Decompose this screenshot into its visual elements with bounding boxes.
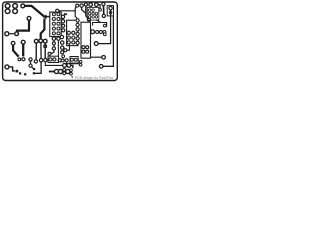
wire W27 bbox=[59, 11, 77, 19]
pad J3.6 bbox=[88, 16, 91, 19]
pad P29 bbox=[99, 65, 103, 69]
board outline bbox=[3, 2, 118, 81]
pad U2 pin2 bbox=[67, 41, 70, 44]
pad U1 pin6 bbox=[57, 13, 60, 16]
pad P46 bbox=[63, 72, 66, 75]
wire W19 bbox=[57, 59, 61, 61]
IC U2 outline bbox=[67, 20, 78, 45]
pad P25 bbox=[96, 31, 99, 34]
pad Q2 bbox=[21, 40, 25, 44]
pad P44 bbox=[79, 64, 82, 67]
pad BX1.1 bbox=[49, 58, 52, 61]
pad R1.1 bbox=[63, 64, 67, 68]
pad P48 bbox=[70, 72, 73, 75]
pad P43 bbox=[79, 61, 82, 64]
wire W25 bbox=[40, 43, 42, 59]
pad P40 bbox=[24, 73, 26, 75]
wire W21 bbox=[49, 71, 61, 73]
pad U3 pin2 bbox=[86, 46, 89, 49]
wire V2 bbox=[103, 16, 113, 66]
pad P38 bbox=[16, 70, 19, 73]
pad P37 bbox=[5, 65, 9, 69]
pad N3b bbox=[76, 23, 79, 26]
wire WQ2 bbox=[22, 44, 24, 56]
connector J4 outline bbox=[107, 6, 113, 16]
pad P16 bbox=[76, 4, 79, 7]
pad U3 pin4 bbox=[86, 50, 89, 53]
pad P55 bbox=[62, 55, 65, 58]
pad U1 pin10 bbox=[57, 32, 60, 35]
pad P53 bbox=[99, 9, 102, 12]
pad P58 bbox=[64, 13, 67, 15]
pad U1 pin2 bbox=[52, 18, 55, 21]
pad J3.1 bbox=[88, 9, 91, 12]
wire W22 bbox=[65, 64, 68, 66]
pad U2 pin4 bbox=[72, 41, 75, 44]
wire W9 bbox=[86, 6, 89, 19]
pad BX2.2 bbox=[74, 58, 77, 61]
pad P27 bbox=[103, 31, 106, 34]
wire W6 bbox=[53, 40, 55, 47]
wire W17 bbox=[35, 62, 42, 73]
pad J3.7 bbox=[92, 16, 95, 19]
wire W30 bbox=[67, 62, 80, 64]
pad U2 pin5 bbox=[67, 31, 70, 34]
IC U1 outline bbox=[50, 12, 61, 36]
pad P52 bbox=[102, 14, 105, 17]
pad U1 pin9 bbox=[57, 27, 60, 30]
pad P31 bbox=[103, 33, 106, 36]
pad P30 bbox=[102, 56, 106, 60]
pad N3d bbox=[76, 32, 79, 35]
pad J3.8 bbox=[95, 16, 98, 19]
pad P5 bbox=[27, 16, 31, 20]
wire W2 bbox=[45, 16, 51, 18]
wire W1 bbox=[25, 6, 45, 17]
pad J3.4 bbox=[92, 12, 95, 15]
wire W26 bbox=[75, 7, 76, 11]
pad P24 bbox=[91, 30, 95, 34]
wire W24 bbox=[32, 67, 34, 69]
pad P34 bbox=[34, 60, 37, 63]
pad P18 bbox=[84, 3, 87, 6]
pad P39 bbox=[19, 72, 21, 74]
bracket RB1 bbox=[93, 23, 107, 28]
wire WQ1 bbox=[13, 45, 19, 57]
pad P42 bbox=[61, 59, 64, 62]
pad N3f bbox=[76, 41, 79, 44]
wire W10 bbox=[98, 5, 100, 9]
pad U2 pin3 bbox=[72, 36, 75, 39]
wire W5 bbox=[41, 19, 45, 39]
connector BX1 outline bbox=[48, 56, 59, 62]
wire W29 bbox=[51, 50, 54, 54]
pad C1.3 bbox=[66, 69, 70, 73]
pad N1a bbox=[61, 15, 64, 18]
wire W3 bbox=[17, 20, 29, 31]
pad P54 bbox=[44, 45, 47, 48]
pad P17 bbox=[80, 4, 83, 7]
pad N1f bbox=[61, 41, 64, 44]
pad J2.2 bbox=[13, 9, 18, 14]
pad P49 bbox=[33, 68, 35, 70]
wire W4 bbox=[9, 33, 15, 35]
pad P12 bbox=[57, 37, 60, 40]
pad Q1 bbox=[11, 41, 15, 45]
pad J2.1 bbox=[13, 4, 18, 9]
pad P35 bbox=[39, 59, 42, 62]
pad N1h bbox=[61, 51, 64, 54]
pad U1 pin1 bbox=[52, 13, 55, 16]
pad N3e bbox=[76, 37, 79, 40]
pad J3.3 bbox=[88, 12, 91, 15]
pad Q2e bbox=[22, 58, 25, 61]
pad P51 bbox=[52, 42, 55, 45]
wire W11 bbox=[96, 20, 100, 23]
IC U3 outline bbox=[81, 22, 91, 58]
pad P41 bbox=[58, 59, 61, 62]
pad J1.2 bbox=[5, 9, 10, 14]
wire W13 bbox=[90, 56, 102, 58]
pad P3 bbox=[21, 4, 25, 8]
pad Q1e bbox=[18, 58, 21, 61]
pad C1.1 bbox=[54, 69, 58, 73]
pad N1c bbox=[62, 24, 65, 27]
wire W18 bbox=[9, 67, 15, 71]
pad U1 pin4 bbox=[52, 27, 55, 30]
pad N3a bbox=[76, 19, 79, 22]
pad N1g bbox=[61, 46, 64, 49]
pad P57 bbox=[64, 49, 67, 52]
pad P47 bbox=[70, 69, 73, 72]
wire W23 bbox=[71, 65, 73, 68]
svg-text:PCB design by Pad2Pad: PCB design by Pad2Pad bbox=[75, 76, 114, 80]
pad BX1.2 bbox=[53, 58, 56, 61]
pad P32 bbox=[29, 58, 32, 61]
wire W28 bbox=[57, 40, 59, 56]
pad P19 bbox=[88, 18, 91, 21]
wire W31 bbox=[63, 59, 66, 61]
pad R1.2 bbox=[67, 64, 71, 68]
pad P9 bbox=[34, 39, 38, 43]
pad N1e bbox=[60, 35, 63, 38]
pad P23 bbox=[103, 24, 106, 27]
pad P14 bbox=[48, 52, 51, 55]
wire W8 bbox=[82, 7, 86, 13]
pad J4.1 bbox=[109, 6, 112, 9]
pad P56 bbox=[65, 59, 68, 62]
logo mark bbox=[71, 76, 73, 78]
pad N1d bbox=[62, 29, 65, 32]
wire W7 bbox=[44, 43, 46, 58]
pad P7 bbox=[5, 32, 9, 36]
pad N1b bbox=[61, 20, 64, 23]
wire W14 bbox=[35, 43, 37, 60]
pad J3.2 bbox=[92, 9, 95, 12]
wire W20 bbox=[45, 62, 63, 66]
wire W32 bbox=[67, 44, 70, 50]
pad BX2.1 bbox=[70, 58, 73, 61]
pad P15 bbox=[44, 58, 47, 61]
pad U1 pin7 bbox=[57, 18, 60, 21]
pad U2 pin6 bbox=[72, 31, 75, 34]
pad P6 bbox=[15, 32, 19, 36]
pad P36 bbox=[33, 72, 35, 74]
pad U3 pin1 bbox=[82, 46, 85, 49]
pad P33 bbox=[29, 64, 32, 67]
pad P10 bbox=[43, 39, 47, 43]
connector BX2 outline bbox=[70, 57, 78, 64]
pad P22 bbox=[102, 2, 105, 5]
pad U3 pin3 bbox=[82, 50, 85, 53]
pad U1 pin8 bbox=[57, 22, 60, 25]
wire V1 bbox=[98, 10, 111, 44]
pad C1.2 bbox=[58, 69, 62, 73]
connector J3 outline bbox=[87, 7, 99, 20]
pad P11 bbox=[52, 37, 55, 40]
pad P13 bbox=[52, 47, 55, 50]
pad P20 bbox=[89, 3, 93, 7]
pad P21 bbox=[95, 3, 99, 7]
wire W12 bbox=[103, 5, 105, 14]
pad J1.1 bbox=[5, 4, 10, 9]
pad P4 bbox=[43, 15, 47, 20]
pad U1 pin3 bbox=[52, 22, 55, 25]
pad P28 bbox=[94, 42, 98, 46]
pad N3c bbox=[76, 28, 79, 31]
pad J4.2 bbox=[109, 11, 112, 14]
pad P26 bbox=[99, 31, 102, 34]
pad U2 pin1 bbox=[67, 36, 70, 39]
pad P50 bbox=[56, 9, 59, 12]
wire W15 bbox=[30, 61, 32, 64]
pad U1 pin5 bbox=[52, 32, 55, 35]
pad P8 bbox=[39, 39, 43, 43]
pad J3.5 bbox=[95, 12, 98, 15]
pad P45 bbox=[63, 68, 66, 71]
